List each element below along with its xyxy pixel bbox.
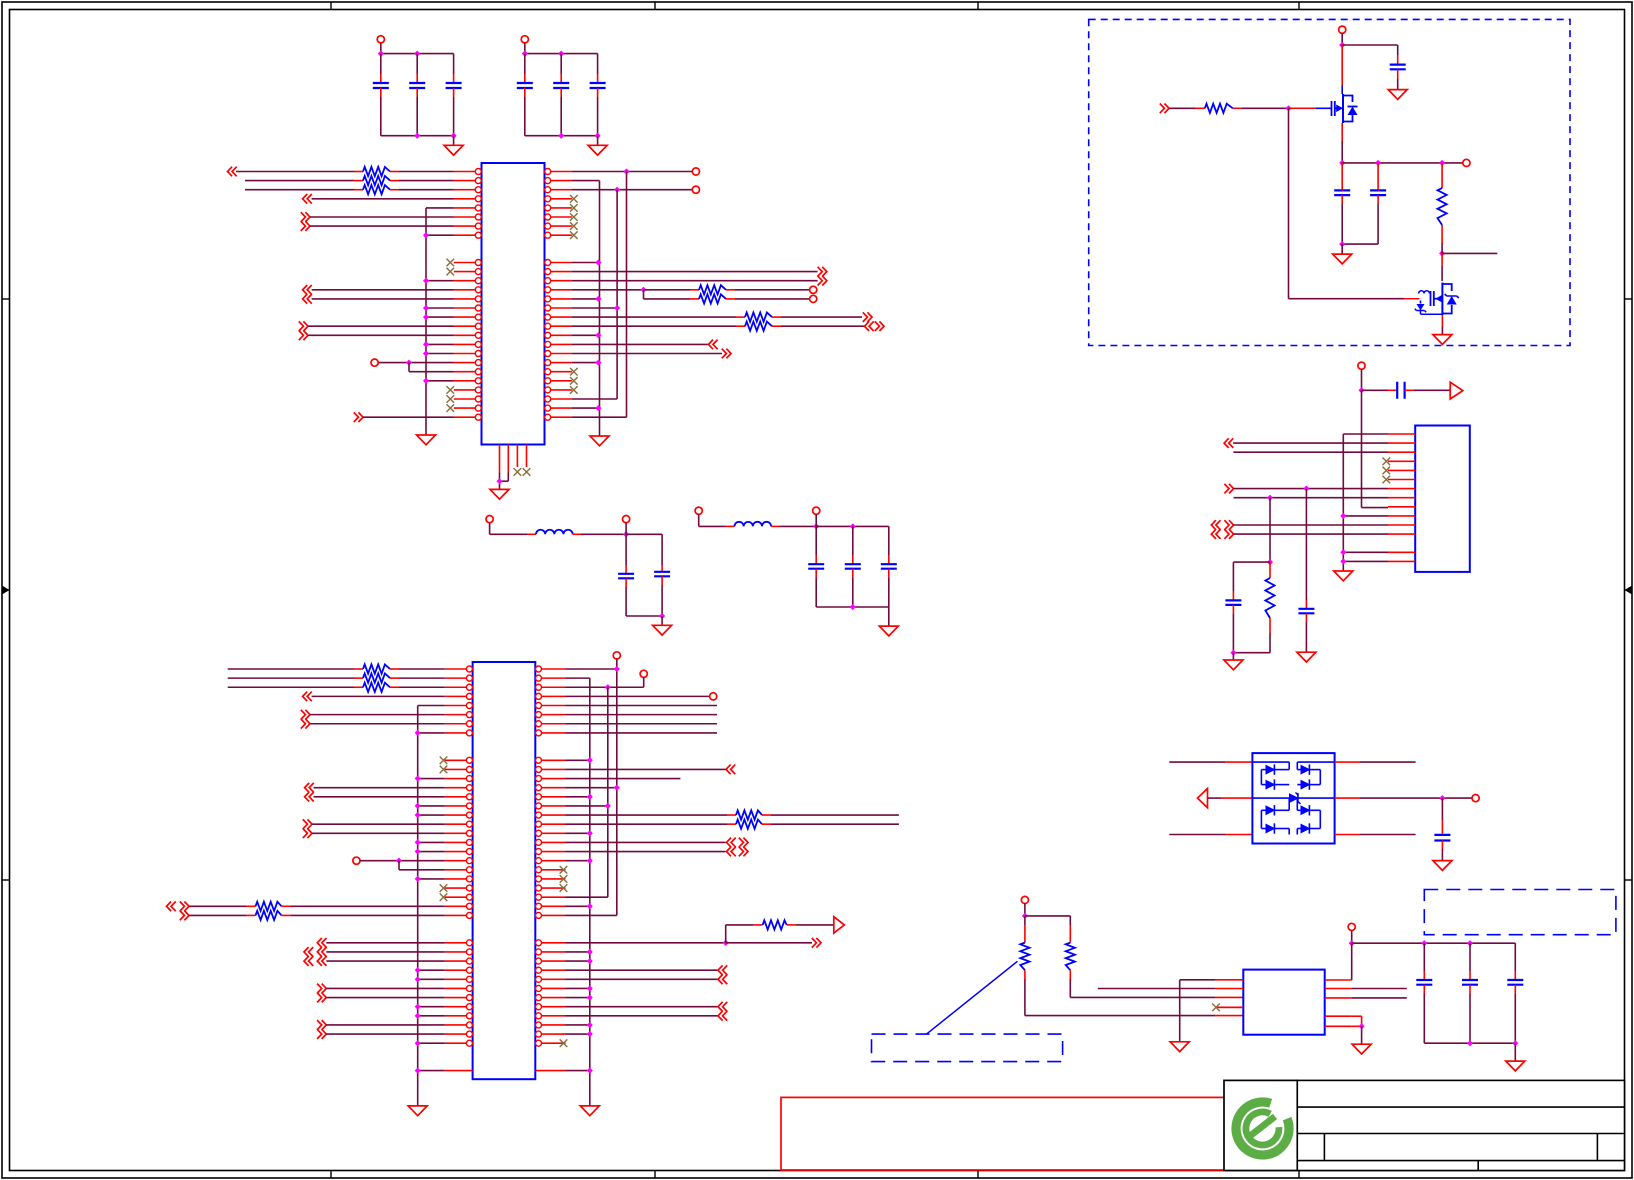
wire row13 (426, 280, 454, 282)
wire U2 row40 (326, 1024, 445, 1026)
capacitor C16 (1305, 600, 1307, 609)
wire L1 out (573, 533, 581, 535)
wire U2 row6 (310, 714, 445, 716)
U1 bottom pin 2 (507, 445, 509, 473)
port chevron row15 (303, 294, 312, 304)
wire U2 row34 (418, 969, 445, 971)
wire U2 row15 (314, 796, 445, 798)
wire U2 row36 (326, 987, 445, 989)
no-connect X U1 right row25 (570, 386, 578, 394)
wire U5 bottom-right (1335, 834, 1360, 836)
wire Q1 source (1341, 123, 1343, 141)
left bus of U1 (425, 208, 427, 435)
wire right row26 (572, 398, 617, 400)
no-connect X U1 left row25 (447, 386, 455, 394)
capacitor C21 (1514, 943, 1516, 971)
wire mid rail (1340, 161, 1345, 166)
wire right row14 (572, 289, 644, 291)
wire LC1 rail (626, 533, 662, 535)
wire right row12 (572, 271, 818, 273)
no-connect X U3 pin6 (1383, 476, 1391, 484)
wire U4 pin2 (1098, 988, 1216, 990)
wire U2 r row26 (566, 896, 608, 898)
wire U5 top-right (1335, 761, 1360, 763)
wire row4 (312, 198, 454, 200)
right bus R2 of U1 (616, 190, 618, 399)
wire right row27 (572, 407, 599, 409)
terminal mid rail (1463, 159, 1470, 166)
wire U2 row32 (326, 951, 445, 953)
wire C15 to arrow (1405, 389, 1414, 391)
wire U2 r row38 (566, 1006, 719, 1008)
power terminal for C1-C3 bank (377, 36, 384, 43)
wire right row16 (572, 307, 617, 309)
wire row24 (426, 380, 454, 382)
wire U2 row8 (418, 732, 445, 734)
ground RC network (1232, 653, 1234, 660)
wire Q1 drain node (1340, 43, 1345, 48)
wire U4 r pin1 (1351, 943, 1353, 980)
wire RC bottom rail (1233, 652, 1270, 654)
wire row19 (308, 334, 454, 336)
wire U2 row24 (418, 878, 445, 880)
port chevron U2 row31 (317, 938, 326, 948)
company logo (1236, 1102, 1289, 1155)
capacitor C9 (815, 526, 817, 555)
capacitor C20 (1469, 943, 1471, 971)
wire LC2 rail (816, 525, 889, 527)
wire right row21 (572, 353, 722, 355)
port chevron net to R1 (228, 167, 237, 177)
resistor R20 (vertical) (1069, 916, 1071, 925)
wire U2 row16 (418, 805, 445, 807)
port chevrons U3 pin12 (1211, 529, 1220, 539)
wire U2 row21 (418, 851, 445, 853)
power terminal R19/R20 (1021, 896, 1028, 903)
op IC U1 body (482, 163, 545, 445)
wire RC drop pin8 (1269, 498, 1271, 562)
capacitor C13 (1341, 163, 1343, 181)
resistor R13 (566, 814, 728, 816)
wire U2 r row27 (566, 905, 590, 907)
no-connect X U1 right row6 (570, 213, 578, 221)
port chevron U2 row40 (317, 1020, 326, 1030)
capacitor C12 (1397, 55, 1399, 65)
port chevron U2 r row38 (718, 1002, 727, 1012)
wire row14 (312, 289, 454, 291)
resistor R8 (228, 668, 354, 670)
ground U3 shield (1334, 571, 1353, 581)
no-connect X U2 right row42 (560, 1039, 568, 1047)
terminal node row22 (371, 359, 378, 366)
port chevron right row17 (863, 312, 872, 322)
power terminal LC2 in (695, 507, 702, 514)
wire U2 r row8 (566, 732, 718, 734)
wire U2 r row22 (566, 860, 590, 862)
left bus of U2 (417, 706, 419, 1106)
wire U5 mid-left (1208, 797, 1222, 799)
wire U5 bottom-left (1169, 834, 1225, 836)
no-connect X U1 right row7 (570, 222, 578, 230)
wire U2 r row7 (566, 723, 718, 725)
ground C12 (1388, 90, 1407, 100)
resistor R18 (vertical) (1269, 562, 1271, 578)
resistor R4 (644, 289, 691, 291)
terminal R5 (810, 295, 817, 302)
sheet arrow out C15 (1450, 382, 1463, 399)
wire U2 r row3 (566, 686, 644, 688)
capacitor C10 (852, 526, 854, 555)
wire U3 pin11 (1234, 524, 1388, 526)
wire U2 r row6 (566, 714, 718, 716)
port chevrons U2 r row21 (727, 847, 736, 857)
no-connect X U3 pin4 (1383, 458, 1391, 466)
wire L2 out (771, 525, 780, 527)
resistor R6 (572, 316, 736, 318)
resistor R2 (245, 180, 354, 182)
wire R17 to stub (1441, 243, 1443, 253)
wire U3 pin1 (1343, 433, 1388, 435)
port chevron gate drive (1160, 104, 1169, 114)
resistor R7 (572, 325, 736, 327)
wire row7 (310, 225, 454, 227)
wire U2 r row21 (566, 851, 726, 853)
resistor R17 (vertical) (1441, 163, 1443, 188)
no-connect X U1 right row5 (570, 204, 578, 212)
no-connect X U3 pin5 (1383, 467, 1391, 475)
wire U2 r row41 (566, 1033, 590, 1035)
port chevron U2 row41 (317, 1029, 326, 1039)
port chevrons U2 row27 (167, 902, 176, 912)
port chevron U2 row18 (303, 819, 312, 829)
no-connect X U2 left row26 (440, 893, 448, 901)
wire U2 row14 (314, 787, 445, 789)
wire right row19 (572, 334, 599, 336)
wire U2 row22 (360, 860, 445, 862)
capacitor C17 (1232, 591, 1234, 600)
no-connect X U2 right row25 (560, 884, 568, 892)
wire R17 to Q2 drain (1441, 253, 1443, 266)
ground caps mid (1341, 244, 1343, 254)
wire U2 r row37 (566, 997, 590, 999)
capacitor C18 (1441, 798, 1443, 820)
wire branch right row31 (726, 942, 812, 944)
wire row22 (378, 362, 454, 364)
notes box (red) (781, 1097, 1226, 1170)
wire jog row22-23 (408, 363, 410, 372)
resistor R10 (228, 686, 354, 688)
no-connect X U1 left row27 (447, 404, 455, 412)
dashed module box (buck converter) (1089, 19, 1570, 345)
wire U2 row42 (418, 1042, 445, 1044)
wire U1 right row3 (572, 189, 692, 191)
capacitor C1 (380, 54, 382, 74)
wire U2 r row16 (566, 805, 608, 807)
capacitor C14 (1377, 163, 1379, 181)
terminal U2 r2 (640, 670, 647, 677)
no-connect X U2 left row11 (440, 756, 448, 764)
ground C18 (1433, 861, 1452, 871)
transistor Q1 (PMOS) (1341, 45, 1343, 86)
wire top rail C1-C3 (381, 53, 454, 55)
wire U2 row31 (326, 942, 445, 944)
port chevron U2 row15 (305, 792, 314, 802)
wire U2 r row14 (566, 787, 617, 789)
U4 left pins (1215, 979, 1243, 981)
diode array U5 body (1252, 753, 1334, 843)
power terminal U3 (1358, 362, 1365, 369)
U1 bottom pin 1 (499, 445, 501, 448)
wire U2 row33 (326, 960, 445, 962)
wire U2 r row35 (566, 978, 719, 980)
no-connect X U1 right row8 (570, 231, 578, 239)
port chevron U2 row28 (180, 911, 189, 921)
port chevron right row12 (818, 267, 827, 277)
wire U2 row41 (326, 1033, 445, 1035)
no-connect X U1 left row11 (447, 259, 455, 267)
capacitor C11 (888, 555, 890, 564)
wire U2 jog row22-23 (398, 861, 400, 870)
wire U2 r row15 (566, 796, 590, 798)
resistor R19 (vertical) (1024, 916, 1026, 925)
resistor R16 (1205, 104, 1233, 113)
wire U3 pin8 (1234, 497, 1388, 499)
port chevron right row20 (708, 340, 717, 350)
wire U2 row20 (418, 841, 445, 843)
power terminal Q1 drain (1339, 26, 1346, 33)
title block table (1297, 1080, 1624, 1170)
wire R19 to U4 (1025, 1015, 1216, 1017)
wire U3 pin3 (1233, 451, 1388, 453)
no-connect X U1 right row24 (570, 377, 578, 385)
wire U4 right rail (1349, 941, 1354, 946)
no-connect X U1 right row4 (570, 195, 578, 203)
U4 right pins (1325, 979, 1352, 981)
ground Q2 (1433, 335, 1452, 345)
wire U3 pin12 (1234, 533, 1388, 535)
right bus C of U2 (616, 669, 618, 915)
ground U4 right (1352, 1044, 1371, 1054)
ground C16 (1297, 652, 1316, 662)
capacitor C5 (560, 54, 562, 74)
wire U4 r pin3 (1352, 997, 1407, 999)
wire row21 (426, 353, 454, 355)
title block logo cell (1224, 1080, 1297, 1170)
dashed note box right (1424, 890, 1616, 935)
wire right row15 (572, 298, 599, 300)
port chevron U2 r row35 (718, 975, 727, 985)
resistor R12 (189, 914, 246, 916)
wire U3 pin2 (1233, 442, 1388, 444)
port chevron U2 row14 (305, 783, 314, 793)
zener D1 gate protection (1420, 301, 1422, 304)
wire U4 pin1 to ground (1180, 979, 1216, 981)
wire U2 r row19 (566, 832, 590, 834)
port chevron row6 (301, 212, 310, 222)
no-connect X U2 right row24 (560, 875, 568, 883)
port chevron U2 row19 (303, 828, 312, 838)
wire LC1 in (490, 533, 527, 535)
port chevrons U2 row32 (304, 947, 313, 957)
sheet arrow out R15 (834, 917, 845, 933)
wire row8 (426, 234, 454, 236)
wire U2 row13 (418, 778, 445, 780)
dashed note box left (872, 1034, 1063, 1062)
no-connect X U1 right row23 (570, 368, 578, 376)
diode array U5 internal diodes (1252, 761, 1289, 763)
wire U2 row19 (312, 832, 445, 834)
capacitor C4 (524, 54, 526, 74)
wire right row20 (572, 343, 709, 345)
wire RC top rail (1233, 561, 1270, 563)
ground for C4-C6 bank (597, 136, 599, 146)
port chevron row19 (299, 331, 308, 341)
no-connect X U1 left row26 (447, 395, 455, 403)
port chevrons right row18 (865, 321, 874, 331)
wire U4 r pin5 (1352, 1025, 1362, 1027)
port chevron U2 row36 (317, 984, 326, 994)
port chevron U3 pin7 (1224, 484, 1233, 494)
wire U2 row4 (312, 695, 445, 697)
wire jog row14-15 (643, 290, 645, 299)
wire to R16 (1169, 107, 1196, 109)
wire U2 row18 (312, 823, 445, 825)
ground left bus U1 (417, 435, 436, 445)
wire R16 to Q1 gate (1233, 107, 1242, 109)
right bus R3 of U1 (626, 172, 628, 418)
wire U1 right row1 (572, 171, 692, 173)
capacitor C6 (597, 54, 599, 74)
U1 right pins (545, 169, 551, 175)
U1 bottom pin 3 no-connect (516, 445, 518, 468)
right bus A of U2 (589, 678, 591, 1106)
no-connect X U2 left row12 (440, 766, 448, 774)
wire U3 pin7 (1234, 488, 1388, 490)
power terminal U4 right (1348, 923, 1355, 930)
terminal right row3 (692, 186, 699, 193)
port chevron U2 row7 (301, 719, 310, 729)
port chevron U2 r row34 (718, 965, 727, 975)
wire U3 pin14 (1343, 551, 1388, 553)
wire U2 r row33 (566, 960, 590, 962)
wire row15 (312, 298, 454, 300)
wire row16 (426, 307, 454, 309)
border zone ticks (330, 2, 332, 10)
port chevron U2 row6 (301, 710, 310, 720)
no-connect X U2 left row25 (440, 884, 448, 892)
transistor Q2 (NMOS) (1419, 291, 1430, 294)
port chevrons U2 row33 (304, 956, 313, 966)
power terminal U2 top (613, 652, 620, 659)
power terminal LC2 out (813, 507, 820, 514)
capacitor C15 (series) (1397, 382, 1404, 399)
inductor L2 (735, 522, 772, 527)
wire branch up row31 (725, 925, 727, 943)
wire U3 power drop (1361, 390, 1363, 507)
no-connect X U4 pin4 (1212, 1004, 1220, 1012)
port chevrons U2 r row20 (727, 838, 736, 848)
capacitor C7 (625, 534, 627, 565)
sheet arrow in U5 (1198, 789, 1208, 808)
terminal U2 row22 (353, 857, 360, 864)
wire U5 top-left (1169, 761, 1225, 763)
terminal right row1 (692, 168, 699, 175)
wire U2 r row40 (566, 1024, 590, 1026)
wire U2 r row34 (566, 969, 719, 971)
wire right row22 (572, 362, 599, 364)
port chevron right row21 (722, 349, 731, 359)
wire right row28 (572, 416, 627, 418)
ground right bus U2 (580, 1106, 599, 1116)
wire row18 (308, 325, 454, 327)
port chevron U2 row4 (303, 692, 312, 702)
port chevron U2 row37 (317, 993, 326, 1003)
wire U2 r row11 (566, 759, 590, 761)
resistor R1 (236, 171, 354, 173)
connector U3 body (1415, 426, 1470, 572)
ground LC1 (661, 616, 663, 625)
resistor R11 (189, 905, 246, 907)
wire U3 pin10 (1343, 515, 1388, 517)
wire row20 (426, 343, 454, 345)
wire right row11 (572, 262, 599, 264)
capacitor C8 (661, 565, 663, 572)
right bus B of U2 (607, 687, 609, 897)
ground U4 pin1 (1170, 1042, 1189, 1052)
right border arrow (1625, 586, 1633, 595)
wire U4 r pin2 (1352, 988, 1407, 990)
wire R20 to U4 (1070, 996, 1215, 998)
port chevron row4 (303, 194, 312, 204)
capacitor C2 (416, 54, 418, 74)
port chevron U3 pin2 (1224, 438, 1233, 448)
ground LC2 (888, 607, 890, 626)
left border arrow (2, 586, 10, 595)
wire bottom rail C1-C3 (381, 135, 454, 137)
wire U2 row38 (418, 1006, 445, 1008)
wire U2 r row5 (566, 705, 718, 707)
wire LC1 bottom rail (626, 615, 662, 617)
wire series cap node (1359, 388, 1364, 393)
wire U2 r row28 (566, 914, 617, 916)
wire U2 row5 to left bus (418, 705, 445, 707)
U1 bottom pin 4 no-connect (526, 445, 528, 468)
wire Q2 source to ground (1441, 315, 1443, 327)
wire U3 pin15 (1343, 560, 1388, 562)
wire U2 row39 (418, 1015, 445, 1017)
wire row28 (363, 416, 454, 418)
terminal U2 r4 (710, 693, 717, 700)
resistor R5 (644, 298, 691, 300)
callout line (927, 961, 1018, 1034)
wire U2 r row12 (566, 768, 727, 770)
wire cap bottom rail (1342, 243, 1378, 245)
terminal R4 (810, 286, 817, 293)
ground left bus U2 (408, 1106, 427, 1116)
no-connect X U1 left row12 (447, 268, 455, 276)
ground under U1 (490, 489, 509, 499)
resistor R15 (726, 924, 753, 926)
resistor R9 (228, 677, 354, 679)
wire U2 r row31 (566, 942, 726, 944)
wire gate link (1288, 108, 1290, 298)
power terminal for C4-C6 bank (521, 36, 528, 43)
wire LC2 in (699, 525, 726, 527)
wire U2 row37 (326, 997, 445, 999)
port chevron U2 r row39 (718, 1011, 727, 1021)
no-connect X U2 right row23 (560, 866, 568, 874)
wire caps bottom rail (1424, 1042, 1515, 1044)
